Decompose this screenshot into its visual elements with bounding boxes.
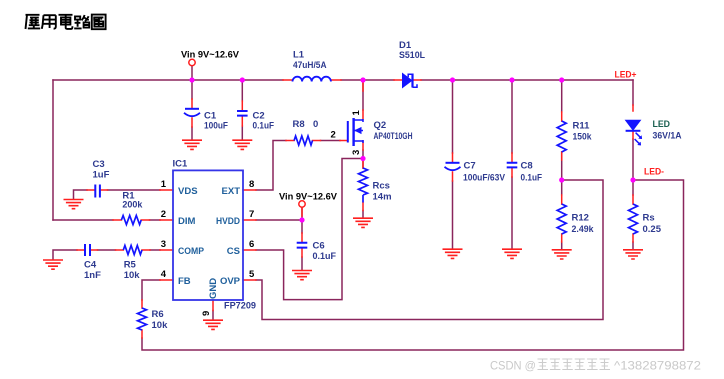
pin stub Q2 gate <box>340 140 347 142</box>
wire C1 to ground <box>191 127 193 140</box>
svg-text:R12: R12 <box>572 213 589 224</box>
svg-text:3: 3 <box>161 239 166 250</box>
pin stub LED anode <box>632 105 634 111</box>
wire Rcs to ground <box>362 211 364 219</box>
svg-text:C6: C6 <box>313 241 325 252</box>
pin stub C7 bottom <box>452 172 454 181</box>
capacitor C8 0.1uF <box>507 163 518 168</box>
svg-text:Rcs: Rcs <box>373 181 390 192</box>
svg-text:LED+: LED+ <box>615 70 637 81</box>
pin stub Rs bottom <box>632 234 634 242</box>
resistor Rs 0.25 <box>629 204 638 234</box>
pin stub C7 top <box>452 153 454 162</box>
wire C4 to R5 <box>98 249 116 251</box>
resistor R1 200k <box>121 216 141 225</box>
resistor R11 150k <box>557 121 566 152</box>
pin stub IC pin 3 <box>160 249 173 251</box>
pin stub R6 top <box>141 300 143 308</box>
wire Rs to ground <box>632 242 634 250</box>
node C7 on rail <box>450 77 455 82</box>
capacitor C6 0.1uF <box>297 243 308 248</box>
pin stub R12 top <box>561 195 563 204</box>
wire C3 to pin 1 <box>108 189 161 191</box>
svg-text:10k: 10k <box>124 270 141 281</box>
wire rail to C7 <box>452 80 454 153</box>
pin stub C1 top <box>191 99 193 108</box>
node C2 on rail <box>240 77 245 82</box>
svg-text:14m: 14m <box>373 192 392 203</box>
svg-text:R6: R6 <box>152 309 164 320</box>
ground C7 <box>443 249 463 258</box>
ground C4 <box>43 260 63 269</box>
op-amp IC1 FP7209 body <box>173 170 243 300</box>
pin stub C4 left <box>77 249 85 251</box>
wire node to R12 <box>561 180 563 195</box>
svg-text:HVDD: HVDD <box>216 216 240 227</box>
svg-text:C7: C7 <box>464 161 476 172</box>
svg-text:47uH/5A: 47uH/5A <box>293 60 327 71</box>
svg-text:3: 3 <box>351 150 362 155</box>
svg-text:IC1: IC1 <box>173 159 189 170</box>
pin stub R11 top <box>561 112 563 121</box>
node R11 on rail <box>559 77 564 82</box>
transistor Q2 AP40T10GH MOSFET <box>348 118 363 146</box>
svg-text:200k: 200k <box>122 200 143 211</box>
svg-text:LED-: LED- <box>644 167 664 178</box>
svg-text:1nF: 1nF <box>84 270 101 281</box>
resistor R6 10k <box>138 308 147 330</box>
svg-text:LED: LED <box>653 119 671 130</box>
pin stub R5 left <box>116 249 124 251</box>
node C8 on rail <box>509 77 514 82</box>
pin stub D1 cathode <box>413 79 421 81</box>
wire R6 bottom to feedback bottom run up to LED- node <box>142 180 684 350</box>
svg-text:L1: L1 <box>293 50 305 61</box>
pin stub C6 top <box>301 209 303 243</box>
pin stub IC pin 5 <box>243 279 256 281</box>
svg-text:R11: R11 <box>573 121 591 132</box>
pin stub IC pin 6 <box>243 249 256 251</box>
wire DIM line to R1 <box>53 219 113 221</box>
wire rail to C8 <box>511 80 513 153</box>
pin stub LED cathode <box>632 132 634 140</box>
pin stub C3 right <box>100 189 108 191</box>
pin stub R11 bottom <box>561 152 563 160</box>
ground C1 <box>182 140 202 149</box>
svg-text:150k: 150k <box>573 132 593 143</box>
pin stub Q2 drain <box>362 81 364 119</box>
svg-text:R8: R8 <box>293 119 305 130</box>
title glyph lu <box>74 15 89 28</box>
svg-text:10k: 10k <box>152 320 169 331</box>
svg-text:2.49k: 2.49k <box>572 224 595 235</box>
wire node to Rcs <box>362 159 364 169</box>
pin stub C8 top <box>511 153 513 163</box>
svg-text:CS: CS <box>227 246 240 257</box>
wire R11 to node <box>561 152 563 180</box>
svg-text:FB: FB <box>178 276 191 287</box>
wire R12 to ground <box>561 242 563 250</box>
svg-text:0.1uF: 0.1uF <box>521 173 543 184</box>
svg-text:36V/1A: 36V/1A <box>653 131 682 142</box>
svg-text:0: 0 <box>313 119 318 130</box>
pin stub Rs top <box>632 195 634 204</box>
node LED-/Rs/FB <box>630 177 635 182</box>
svg-text:5: 5 <box>249 269 255 280</box>
svg-text:CSDN @: CSDN @ <box>490 359 536 373</box>
svg-text:DIM: DIM <box>178 216 196 227</box>
title glyph ying <box>26 15 41 29</box>
terminal Vin 9V~12.6V at HVDD <box>299 201 305 207</box>
pin stub Q2 source <box>362 141 364 150</box>
node HVDD/Vin2/C6 <box>299 217 304 222</box>
svg-text:VDS: VDS <box>178 186 198 197</box>
svg-text:0.25: 0.25 <box>643 224 662 235</box>
pin stub C6 bottom <box>301 249 303 258</box>
ground C3 <box>64 200 84 209</box>
wire left rail down to DIM line <box>52 80 54 220</box>
pin stub R1 right <box>141 219 149 221</box>
pin stub IC pin 7 <box>243 219 256 221</box>
wire IC GND pin to ground <box>212 311 214 321</box>
watermark CSDN <box>490 359 536 373</box>
wire R1 to pin 2 <box>150 219 161 221</box>
wire LED cathode down to LED- node <box>632 139 634 180</box>
svg-text:EXT: EXT <box>222 186 241 197</box>
node Q2 drain on rail <box>360 77 365 82</box>
svg-text:1: 1 <box>351 110 362 116</box>
wire rail to Q2 drain <box>362 80 364 110</box>
wire LED- node to Rs <box>632 180 634 195</box>
pin stub IC pin 8 <box>243 189 256 191</box>
resistor R12 2.49k <box>557 204 566 234</box>
wire VDS line: ground to C3 <box>74 190 88 199</box>
pin stub Rcs top <box>362 160 364 168</box>
resistor Rcs 14m <box>359 168 368 203</box>
wire R5 to pin 3 <box>150 249 160 251</box>
svg-text:S510L: S510L <box>399 50 425 61</box>
svg-text:8: 8 <box>249 179 254 190</box>
wire C2 to ground <box>241 126 243 140</box>
wire rail to C2 <box>241 80 243 101</box>
wire EXT pin 8 up and over to R8 <box>256 141 286 191</box>
svg-text:9: 9 <box>201 311 212 316</box>
ground Rs <box>623 250 643 259</box>
wire Q2 source to node <box>362 150 364 159</box>
svg-text:2: 2 <box>331 130 336 141</box>
svg-text:0.1uF: 0.1uF <box>253 121 275 132</box>
svg-text:C3: C3 <box>93 159 105 170</box>
inductor L1 47uH/5A <box>293 77 331 82</box>
svg-text:100uF: 100uF <box>204 121 228 132</box>
wire top rail right segment (D1 cathode to LED+ corner) <box>421 79 633 81</box>
svg-text:2: 2 <box>161 209 166 220</box>
wire Vin terminal 2 stub down through C6 to ground <box>301 207 303 270</box>
node Vin/C1 on rail <box>189 77 194 82</box>
wire Vin terminal 1 stub to rail <box>191 66 193 80</box>
capacitor C1 100uF polarized <box>184 109 200 116</box>
wire R8 to Q2 gate <box>321 140 341 142</box>
pin stub C8 bottom <box>511 168 513 177</box>
capacitor C2 0.1uF <box>237 111 248 116</box>
pin stub IC pin 4 <box>160 279 173 281</box>
wire FB pin 4 to R6 top <box>142 280 160 300</box>
pin stub D1 anode <box>394 79 403 81</box>
pin stub R5 right <box>142 249 150 251</box>
LED D 36V/1A <box>626 120 642 145</box>
svg-text:0.1uF: 0.1uF <box>313 251 337 262</box>
svg-text:C8: C8 <box>521 161 533 172</box>
pin stub R1 left <box>113 219 121 221</box>
pin stub IC pin 1 <box>160 189 173 191</box>
capacitor C7 100uF/63V polarized <box>445 163 461 170</box>
ground IC GND <box>203 320 223 329</box>
resistor R8 0 <box>294 136 312 145</box>
wire rail to C1 <box>191 80 193 99</box>
svg-text:Vin 9V~12.6V: Vin 9V~12.6V <box>181 50 240 61</box>
svg-text:100uF/63V: 100uF/63V <box>463 173 506 184</box>
wire LED+ corner down to LED anode <box>632 80 634 105</box>
svg-text:4: 4 <box>161 269 167 280</box>
pin stub C2 bottom <box>241 116 243 126</box>
ground R12 <box>552 250 572 259</box>
svg-text:OVP: OVP <box>220 276 241 287</box>
node Q2 source/Rcs/CS <box>360 156 365 161</box>
pin stub L1 right <box>331 79 341 81</box>
title 應用電路圖 <box>26 15 106 30</box>
wire rail to R11 <box>561 80 563 112</box>
svg-text:FP7209: FP7209 <box>224 301 256 312</box>
ground C2 <box>232 140 252 149</box>
capacitor C4 1nF <box>85 244 90 256</box>
wire CS pin 6 run to Q2 source node <box>256 159 363 300</box>
svg-text:1uF: 1uF <box>93 170 110 181</box>
title glyph tu <box>92 15 106 30</box>
svg-text:R5: R5 <box>124 260 137 271</box>
pin stub R8 right <box>313 140 321 142</box>
ground Rcs <box>353 218 373 227</box>
terminal Vin 9V~12.6V top <box>189 59 195 65</box>
ground C6 <box>292 271 312 280</box>
diode D1 S510L schottky <box>403 74 418 88</box>
node R11/R12/OVP <box>559 177 564 182</box>
title glyph yong <box>42 15 56 29</box>
pin stub C1 bottom <box>191 118 193 127</box>
svg-text:Rs: Rs <box>643 213 655 224</box>
svg-text:Vin 9V~12.6V: Vin 9V~12.6V <box>279 192 338 203</box>
pin stub L1 left <box>283 79 293 81</box>
svg-text:AP40T10GH: AP40T10GH <box>374 131 413 142</box>
pin stub R8 left <box>286 140 294 142</box>
wire COMP line: ground to C4 <box>53 250 77 260</box>
pin stub Rcs bottom <box>362 203 364 211</box>
pin stub C4 right <box>90 249 98 251</box>
svg-text:Q2: Q2 <box>374 120 387 131</box>
pin stub R12 bottom <box>561 234 563 242</box>
pin stub IC pin 9 GND <box>212 300 214 311</box>
capacitor C3 1uF <box>95 185 100 198</box>
pin stub IC pin 2 <box>160 219 173 221</box>
svg-text:C4: C4 <box>84 260 97 271</box>
pin stub C3 left <box>87 189 95 191</box>
svg-text:1: 1 <box>161 179 167 190</box>
svg-text:COMP: COMP <box>178 246 205 257</box>
svg-text:7: 7 <box>249 209 254 220</box>
svg-text:6: 6 <box>249 239 254 250</box>
svg-text:GND: GND <box>208 278 219 299</box>
wire top rail left segment (Vin rail to L1) <box>53 79 283 81</box>
wire C8 to ground <box>511 177 513 249</box>
title glyph dian <box>59 15 73 29</box>
resistor R5 10k <box>123 246 142 255</box>
wire OVP pin 5 run to R11/R12 node <box>256 180 603 320</box>
ground C8 <box>502 249 522 258</box>
wire C7 to ground <box>452 181 454 249</box>
wire HVDD pin 7 to Vin terminal node <box>256 219 302 221</box>
pin stub R6 bottom <box>141 330 143 338</box>
svg-text:^13828798872: ^13828798872 <box>614 359 701 373</box>
pin stub C2 top <box>241 101 243 111</box>
wire top rail mid segment (L1 to D1 anode) <box>341 79 394 81</box>
